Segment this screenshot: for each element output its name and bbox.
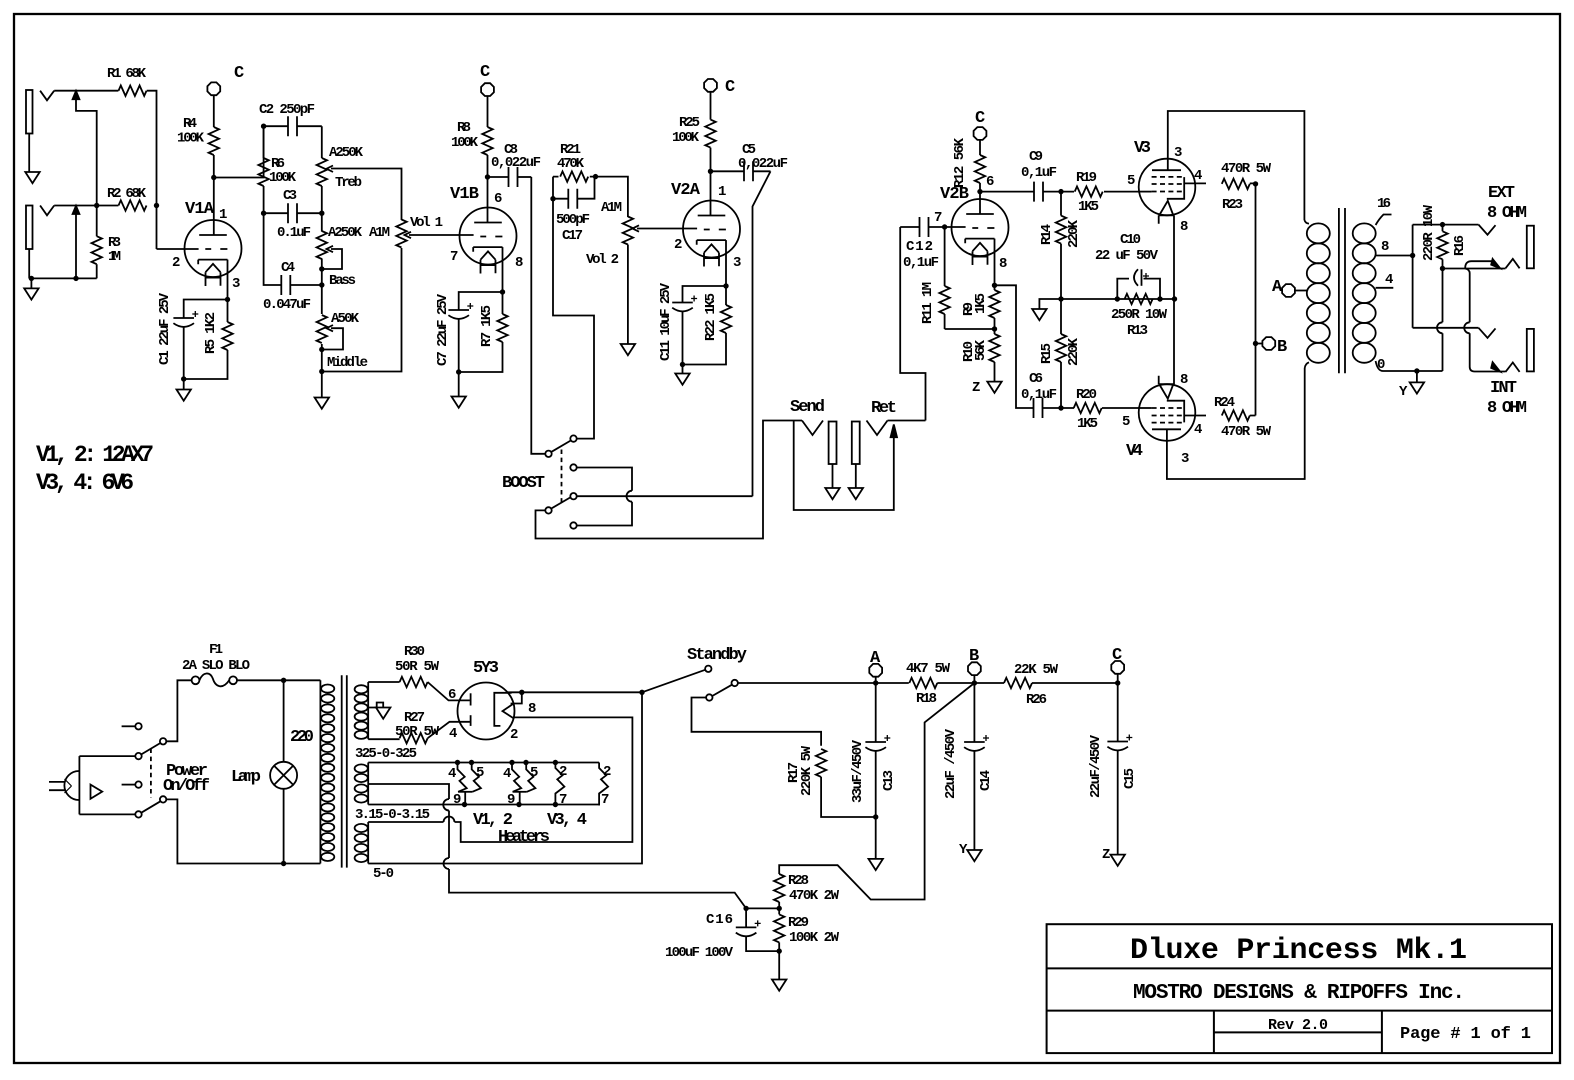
svg-text:1K5: 1K5 — [1078, 199, 1099, 215]
svg-text:4: 4 — [448, 766, 456, 782]
svg-text:220R 10W: 220R 10W — [1421, 204, 1437, 261]
junction dot — [154, 203, 159, 208]
junction dot — [1253, 181, 1258, 186]
svg-text:Lamp: Lamp — [231, 768, 261, 787]
ground (tone stack) — [315, 372, 329, 409]
wire (normal path to INT lower) — [1465, 269, 1505, 372]
capacitor C9 — [980, 182, 1061, 202]
svg-text:R8: R8 — [457, 120, 471, 136]
svg-text:325-0-325: 325-0-325 — [355, 746, 417, 762]
ground (V2A cathode) — [675, 365, 689, 385]
junction dot — [181, 376, 186, 381]
svg-text:500pF: 500pF — [556, 212, 590, 228]
svg-text:2: 2 — [172, 255, 180, 271]
svg-text:C: C — [1112, 646, 1122, 665]
svg-text:0.047uF: 0.047uF — [263, 297, 311, 313]
ground (J2 rail) — [24, 278, 38, 299]
ground (jack J1 sleeve) — [25, 172, 39, 183]
triode V2B — [952, 199, 1009, 265]
svg-text:8: 8 — [1381, 239, 1389, 255]
junction dot (tone stack top) — [261, 124, 266, 129]
svg-text:Page # 1 of 1: Page # 1 of 1 — [1400, 1025, 1531, 1044]
svg-text:8: 8 — [1180, 372, 1188, 388]
svg-text:Y: Y — [959, 842, 968, 858]
junction dot (V2B grid node) — [942, 224, 947, 229]
switch BOOST — [545, 435, 576, 528]
svg-text:22 uF 50V: 22 uF 50V — [1095, 248, 1159, 264]
capacitor C1 — [173, 300, 227, 380]
potentiometer Bass A250K — [317, 213, 342, 285]
ground (V1B cathode) — [452, 372, 466, 408]
junction dot — [73, 276, 78, 281]
terminal C (V2A supply) — [704, 79, 717, 92]
junction dot (V2B plate node) — [977, 189, 982, 194]
svg-text:7: 7 — [934, 210, 942, 226]
junction dot — [319, 369, 324, 374]
svg-text:470K 2W: 470K 2W — [789, 888, 840, 904]
resistor R8 — [482, 96, 492, 177]
capacitor C4 — [264, 213, 322, 295]
wire (V2A cathode) — [725, 240, 727, 286]
wire (V4 plate to OT) — [1167, 368, 1305, 479]
svg-text:4K7 5W: 4K7 5W — [906, 661, 951, 677]
svg-text:INT: INT — [1490, 379, 1517, 398]
svg-text:R12 56K: R12 56K — [952, 137, 968, 188]
wire (heater ref node) — [746, 902, 779, 914]
wire (C8 to boost common 1) — [531, 177, 545, 454]
junction dot — [1253, 341, 1258, 346]
svg-text:250R 10W: 250R 10W — [1111, 307, 1168, 323]
resistor R14 — [1056, 192, 1066, 299]
svg-text:1M: 1M — [108, 249, 121, 265]
junction dot — [94, 203, 99, 208]
wire (V3 plate to OT) — [1168, 111, 1305, 220]
wire (cathode feedback to C6) — [995, 285, 1034, 408]
svg-text:C: C — [725, 78, 735, 97]
svg-text:100K: 100K — [672, 130, 700, 146]
svg-text:Rev 2.0: Rev 2.0 — [1268, 1017, 1328, 1034]
svg-text:R23: R23 — [1222, 197, 1243, 213]
junction dot — [516, 802, 521, 807]
svg-text:R25: R25 — [679, 115, 700, 131]
lamp — [270, 680, 297, 863]
resistor R19 — [1061, 186, 1139, 196]
svg-text:C12: C12 — [906, 239, 933, 255]
svg-text:R20: R20 — [1076, 387, 1097, 403]
junction dot — [723, 283, 728, 288]
svg-text:50R 5W: 50R 5W — [395, 659, 440, 675]
junction dot — [225, 297, 230, 302]
svg-text:C10: C10 — [1120, 232, 1141, 248]
svg-text:7: 7 — [450, 249, 458, 265]
resistor R18 — [876, 678, 975, 688]
resistor R3 — [92, 206, 102, 279]
potentiometer Vol 2 A1M — [623, 217, 697, 245]
heater V2 — [512, 763, 535, 806]
resistor R26 — [974, 678, 1117, 688]
junction dot — [1115, 680, 1120, 685]
capacitor C10 — [1117, 269, 1160, 299]
junction dot — [319, 266, 324, 271]
svg-text:7: 7 — [601, 792, 609, 808]
svg-text:Y: Y — [1399, 384, 1408, 400]
wire (R21 right node to Vol2) — [596, 177, 628, 217]
node arrow (input 2) — [73, 206, 80, 279]
wire (ground rail below J2) — [31, 277, 96, 279]
ground (R29) — [772, 942, 786, 990]
input jack J1 — [26, 90, 54, 172]
resistor R24 — [1184, 410, 1255, 420]
svg-text:C4: C4 — [281, 260, 295, 276]
svg-text:R5 1K2: R5 1K2 — [203, 312, 219, 354]
svg-text:22K 5W: 22K 5W — [1014, 662, 1059, 678]
junction dot — [1058, 405, 1063, 410]
svg-text:A: A — [1272, 278, 1283, 297]
terminal C — [1111, 661, 1124, 674]
wire (Ret to C12) — [900, 227, 925, 421]
ground (Ret sleeve) — [849, 488, 863, 499]
svg-text:2: 2 — [510, 727, 518, 743]
svg-text:R26: R26 — [1026, 692, 1047, 708]
svg-text:0,1uF: 0,1uF — [903, 255, 939, 271]
svg-text:5Y3: 5Y3 — [473, 659, 499, 678]
wire (EXT lower contact) — [1443, 268, 1506, 270]
svg-text:C7 22uF 25V: C7 22uF 25V — [435, 293, 451, 366]
output transformer secondary — [1353, 223, 1376, 362]
svg-text:50R 5W: 50R 5W — [395, 724, 440, 740]
heater center tap wire — [368, 784, 746, 908]
junction dot — [550, 196, 555, 201]
svg-text:470R 5W: 470R 5W — [1221, 161, 1272, 177]
svg-text:220K 5W: 220K 5W — [799, 745, 815, 796]
svg-text:A1M: A1M — [601, 200, 622, 216]
svg-text:Bass: Bass — [329, 273, 356, 289]
heater V3/V4 — [555, 763, 564, 806]
svg-text:R22 1K5: R22 1K5 — [703, 293, 719, 341]
wire (R20 to V4 grid) — [1138, 407, 1152, 409]
junction dot — [281, 861, 286, 866]
svg-text:5: 5 — [476, 765, 484, 781]
junction dot — [509, 760, 514, 765]
svg-text:Send: Send — [790, 398, 825, 417]
tap 16 — [1376, 215, 1392, 226]
wire (INT tip) — [1413, 327, 1479, 329]
svg-text:Heaters: Heaters — [498, 828, 550, 847]
svg-text:56K: 56K — [973, 339, 989, 361]
svg-text:C1 22uF 25V: C1 22uF 25V — [157, 292, 173, 365]
resistor R27 — [368, 722, 470, 744]
resistor R9 — [989, 285, 999, 329]
junction dot — [1410, 253, 1415, 258]
svg-text:C: C — [480, 63, 490, 82]
resistor R4 — [209, 95, 219, 177]
wire (5-0 winding bottom to pin 8) — [368, 692, 642, 863]
junction dot — [1157, 296, 1162, 301]
ground Y (C14) — [967, 850, 981, 861]
capacitor C17 — [553, 177, 595, 209]
svg-text:C16: C16 — [706, 912, 733, 928]
svg-text:6: 6 — [494, 191, 502, 207]
svg-text:5: 5 — [1122, 414, 1130, 430]
svg-text:R15: R15 — [1039, 343, 1055, 364]
svg-text:8: 8 — [515, 255, 523, 271]
svg-text:100K: 100K — [451, 135, 479, 151]
svg-text:C2 250pF: C2 250pF — [259, 102, 315, 118]
ground Z (C15) — [1111, 855, 1125, 866]
junction dot — [639, 690, 644, 695]
jack Ret — [794, 421, 926, 511]
svg-text:3: 3 — [1174, 145, 1182, 161]
junction dot — [553, 802, 558, 807]
svg-text:C9: C9 — [1029, 149, 1043, 165]
junction dot — [873, 680, 878, 685]
resistor R6 — [258, 126, 268, 213]
resistor R16 — [1437, 225, 1447, 269]
title block — [1047, 924, 1552, 1053]
svg-text:5: 5 — [530, 765, 538, 781]
svg-text:Z: Z — [972, 380, 980, 396]
fuse F1 — [192, 673, 237, 686]
svg-text:C3: C3 — [283, 188, 297, 204]
svg-text:V1A: V1A — [185, 200, 215, 219]
svg-text:C11 10uF 25V: C11 10uF 25V — [658, 282, 674, 361]
ground (C13) — [869, 817, 883, 870]
svg-text:V2A: V2A — [671, 181, 701, 200]
svg-text:R18: R18 — [916, 691, 937, 707]
wire (V3 cathode to rail) — [1173, 215, 1175, 299]
jack switch lever (INT) — [1491, 362, 1500, 371]
junction dot — [992, 326, 997, 331]
terminal C (V1B supply) — [481, 83, 494, 96]
junction dot — [1414, 368, 1419, 373]
svg-text:R16: R16 — [1452, 235, 1468, 256]
resistor R5 — [184, 300, 233, 380]
terminal B — [968, 662, 981, 675]
svg-text:8 OHM: 8 OHM — [1487, 399, 1527, 418]
svg-text:0: 0 — [1377, 357, 1385, 373]
svg-text:100K: 100K — [177, 131, 205, 147]
svg-text:B: B — [969, 647, 979, 666]
resistor R25 — [705, 92, 715, 171]
svg-text:C13: C13 — [881, 770, 897, 791]
wire (fuse to transformer) — [237, 679, 320, 681]
junction dot — [500, 289, 505, 294]
terminal C (V1A supply) — [207, 82, 220, 95]
svg-text:On/Off: On/Off — [163, 777, 210, 796]
junction dot (C3 left) — [261, 211, 266, 216]
svg-text:R11 1M: R11 1M — [920, 282, 936, 324]
svg-text:8 OHM: 8 OHM — [1487, 204, 1527, 223]
triode V1A — [185, 220, 242, 286]
wire (J1 tip to R1) — [54, 90, 118, 92]
ground Z (V2B cathode) — [987, 375, 1001, 393]
power transformer heater secondary 3.15-0-3.15 — [355, 763, 369, 805]
junction dot — [523, 760, 528, 765]
svg-text:100K: 100K — [269, 170, 297, 186]
wire (R1 to V1A grid) — [147, 91, 157, 249]
svg-text:Ret: Ret — [871, 399, 897, 418]
junction dot — [462, 802, 467, 807]
resistor R12 — [975, 140, 985, 192]
heater V1 — [458, 763, 481, 806]
junction dot — [456, 369, 461, 374]
svg-text:3.15-0-3.15: 3.15-0-3.15 — [355, 807, 430, 823]
junction dot (V2A plate node) — [708, 169, 713, 174]
svg-text:3: 3 — [733, 255, 741, 271]
svg-text:6: 6 — [448, 687, 456, 703]
svg-text:470K: 470K — [557, 156, 585, 172]
svg-text:R13: R13 — [1127, 323, 1148, 339]
switch Standby — [642, 666, 738, 701]
terminal A — [869, 664, 882, 677]
resistor R21 — [553, 171, 596, 181]
capacitor C12 — [900, 217, 944, 237]
svg-text:8: 8 — [528, 701, 536, 717]
svg-text:R28: R28 — [788, 873, 809, 889]
resistor R13 — [1125, 294, 1153, 304]
jack switch lever (EXT) — [1465, 259, 1500, 269]
svg-text:A50K: A50K — [331, 311, 360, 327]
resistor R7 — [459, 292, 508, 372]
capacitor C16 — [736, 908, 779, 951]
svg-text:C: C — [975, 109, 985, 128]
svg-text:4: 4 — [1385, 272, 1393, 288]
tap 0 wire — [1376, 361, 1443, 371]
wire (standby lower contact to R17) — [692, 698, 822, 746]
resistor R30 — [368, 677, 470, 701]
svg-text:Middle: Middle — [327, 355, 368, 371]
heater top rail — [368, 762, 599, 764]
arrow (mains in) — [91, 785, 103, 799]
svg-text:16: 16 — [1377, 196, 1391, 212]
svg-text:0.1uF: 0.1uF — [277, 225, 311, 241]
svg-text:22uF/450V: 22uF/450V — [1088, 734, 1104, 798]
resistor R2 — [119, 200, 147, 210]
svg-text:R1 68K: R1 68K — [107, 66, 147, 82]
wire (boost pole2 common to send) — [536, 421, 803, 539]
wire (standby to node A) — [738, 682, 876, 684]
svg-text:A250K: A250K — [328, 225, 363, 241]
svg-text:9: 9 — [453, 792, 461, 808]
wire (cathode rail) — [1061, 298, 1175, 300]
svg-text:8: 8 — [999, 256, 1007, 272]
svg-text:F1: F1 — [209, 642, 223, 658]
wire (C5 to boost) — [753, 171, 771, 496]
resistor R28 — [774, 874, 784, 902]
wire (V1A cathode) — [227, 260, 229, 300]
power transformer primary — [320, 680, 334, 863]
ground (Send sleeve) — [825, 488, 839, 499]
resistor R29 — [774, 914, 784, 942]
svg-text:4: 4 — [503, 766, 511, 782]
mains plug — [49, 756, 79, 814]
svg-text:V1B: V1B — [450, 185, 479, 204]
junction dot — [553, 760, 558, 765]
resistor R23 — [1184, 179, 1255, 189]
svg-text:0,1uF: 0,1uF — [1021, 387, 1057, 403]
junction dot — [519, 690, 524, 695]
svg-text:0,022uF: 0,022uF — [738, 156, 788, 172]
capacitor C14 — [964, 683, 989, 850]
junction dot — [743, 906, 748, 911]
rectifier 5Y3 — [458, 683, 522, 740]
potentiometer Vol 1 A1M — [396, 220, 473, 248]
svg-text:4: 4 — [1194, 422, 1202, 438]
output transformer core — [1339, 208, 1345, 373]
jack INT 8 OHM — [1479, 328, 1534, 372]
junction dot — [593, 174, 598, 179]
svg-text:C6: C6 — [1029, 371, 1043, 387]
svg-text:BOOST: BOOST — [502, 474, 545, 493]
wire (R11 bottom to R9/R10) — [945, 328, 995, 330]
power transformer core — [342, 675, 347, 867]
capacitor C6 — [1034, 398, 1062, 418]
wire (V1A plate node to tone stack) — [214, 126, 264, 177]
svg-text:470R 5W: 470R 5W — [1221, 424, 1272, 440]
jack Ret contact bar — [852, 422, 860, 489]
terminal B (screen supply) — [1262, 337, 1275, 350]
wire (R23 to B node) — [1255, 184, 1257, 416]
svg-text:C14: C14 — [978, 770, 994, 791]
junction dot — [1440, 266, 1445, 271]
wire (J2 tip to R2) — [54, 205, 118, 207]
svg-text:R14: R14 — [1039, 224, 1055, 245]
svg-text:22uF /450V: 22uF /450V — [943, 728, 959, 799]
wire (8 tap to jacks) — [1412, 225, 1414, 328]
junction dot — [992, 283, 997, 288]
triode V2A — [683, 201, 740, 267]
potentiometer Treb A250K — [317, 126, 402, 220]
capacitor C7 — [448, 292, 502, 372]
junction dot (C9/R14/R19) — [1058, 189, 1063, 194]
output transformer primary — [1304, 220, 1329, 368]
wire (grid wire to V1A) — [157, 248, 199, 250]
wire (R21 left node down to boost) — [553, 199, 594, 439]
svg-text:V1, 2: 12AX7: V1, 2: 12AX7 — [36, 442, 154, 468]
ground (V1A cathode) — [177, 379, 191, 401]
svg-text:B: B — [1277, 338, 1287, 357]
svg-text:C17: C17 — [562, 228, 583, 244]
switch Power On/Off — [122, 723, 167, 818]
resistor R22 — [683, 286, 732, 365]
heater pilot — [599, 763, 608, 806]
wire (V2B cathode) — [994, 239, 996, 286]
svg-text:Standby: Standby — [687, 646, 747, 665]
input jack J2 — [26, 206, 54, 279]
capacitor C15 — [1107, 683, 1132, 855]
capacitor C2 — [264, 116, 322, 136]
svg-text:1K5: 1K5 — [1077, 416, 1098, 432]
junction dot (V1A plate node) — [211, 175, 216, 180]
svg-text:8: 8 — [1180, 219, 1188, 235]
resistor R10 — [989, 329, 999, 375]
svg-text:A1M: A1M — [369, 225, 390, 241]
svg-text:MOSTRO DESIGNS & RIPOFFS Inc.: MOSTRO DESIGNS & RIPOFFS Inc. — [1133, 982, 1465, 1005]
wire (switch to fuse) — [166, 680, 191, 741]
ground (cathode rail) — [1032, 299, 1061, 320]
svg-text:1: 1 — [219, 207, 227, 223]
svg-text:V3: V3 — [1134, 139, 1151, 158]
svg-text:33uF/450V: 33uF/450V — [850, 739, 866, 803]
wire (Middle to Vol1 bottom) — [322, 248, 402, 372]
svg-text:Vol 1: Vol 1 — [410, 215, 443, 231]
wire (R16 bottom to 0 rail) — [1442, 269, 1444, 372]
tap 4 stub — [1376, 287, 1394, 289]
junction dot (C3 right) — [319, 211, 324, 216]
svg-text:3: 3 — [1181, 451, 1189, 467]
svg-text:Dluxe Princess Mk.1: Dluxe Princess Mk.1 — [1130, 934, 1467, 968]
node arrow (input 1) — [73, 91, 97, 206]
